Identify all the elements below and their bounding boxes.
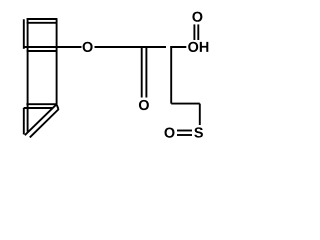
triangle front-left vertical xyxy=(23,108,25,135)
cage back square top edge xyxy=(27,18,57,20)
triangle top-right connector xyxy=(57,105,59,109)
cage front square top edge xyxy=(27,22,57,24)
acid C=O double bond line 1 xyxy=(193,24,195,40)
chemical structure diagram xyxy=(0,0,239,154)
triangle front hypotenuse offset below xyxy=(30,109,59,137)
sulfinyl S=O double bond line 1 xyxy=(177,130,192,132)
bond ester O to carbonyl C xyxy=(95,46,167,48)
bond alpha C to hydroxyl OH xyxy=(170,46,186,48)
ester oxygen O label xyxy=(83,42,93,52)
sulfinyl S=O double bond line 2 xyxy=(177,134,192,136)
bond CH2 down to S xyxy=(199,104,201,125)
carboxyl OH label xyxy=(188,42,198,52)
ester carbonyl O label xyxy=(139,100,149,110)
sulfinyl O label xyxy=(165,128,175,138)
triangle back top edge xyxy=(26,103,57,105)
bond alpha C down to CH2 xyxy=(170,46,172,104)
ester C=O double bond line 2 xyxy=(145,48,147,98)
bond CH2 horizontal xyxy=(171,103,200,105)
cage right vertical shared edge down to triangle xyxy=(56,18,58,104)
ester C=O double bond line 1 xyxy=(141,48,143,98)
acid C=O double bond line 2 xyxy=(197,24,199,40)
acid carbonyl O label xyxy=(192,12,202,22)
sulfur S label xyxy=(194,127,203,137)
cage back-left vertical running down to triangle xyxy=(27,18,29,131)
triangle front top edge xyxy=(24,107,52,109)
cage front-left vertical xyxy=(23,19,25,49)
cage front square bottom edge xyxy=(27,50,57,52)
triangle back hypotenuse xyxy=(25,104,57,135)
cage back square bottom edge merging into ester bond xyxy=(25,46,82,48)
